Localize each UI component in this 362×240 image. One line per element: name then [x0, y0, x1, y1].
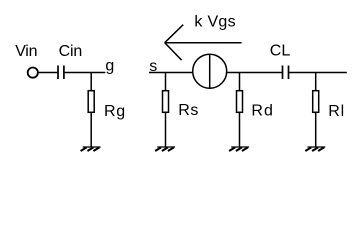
- svg-text:Rg: Rg: [104, 103, 125, 120]
- svg-text:Rd: Rd: [251, 102, 273, 119]
- svg-text:Rs: Rs: [178, 102, 198, 119]
- svg-text:Vin: Vin: [15, 43, 37, 60]
- svg-text:Rl: Rl: [328, 103, 344, 120]
- svg-text:s: s: [149, 58, 157, 75]
- svg-text:g: g: [105, 57, 114, 74]
- svg-text:k Vgs: k Vgs: [194, 14, 235, 31]
- svg-text:Cin: Cin: [59, 43, 83, 60]
- svg-text:CL: CL: [270, 43, 291, 60]
